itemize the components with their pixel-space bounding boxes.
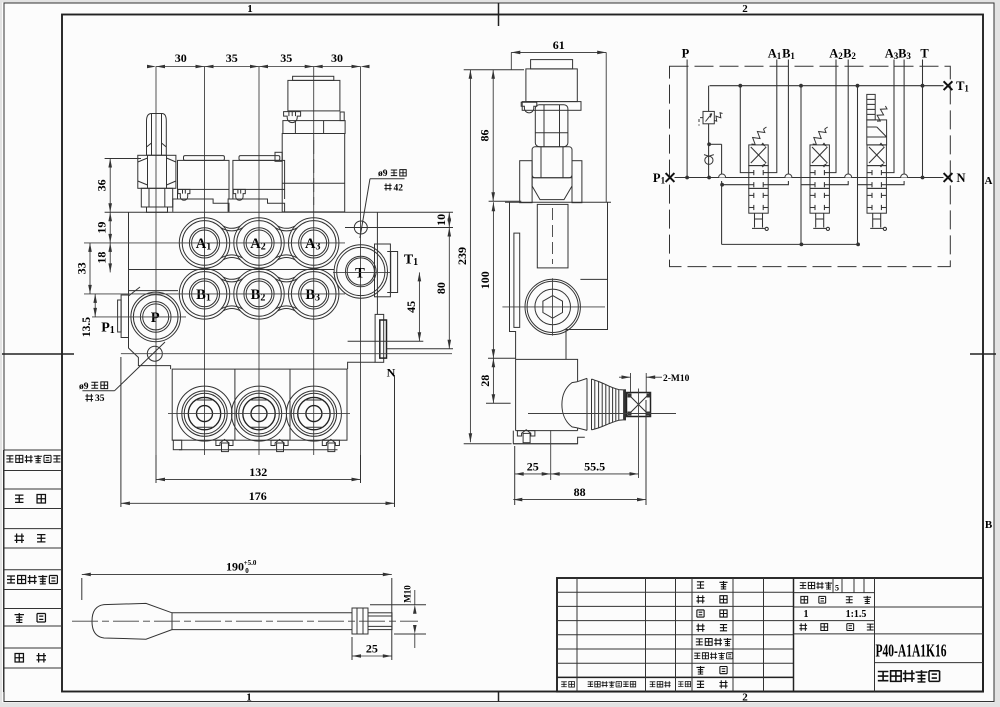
wire bypass to spool1 lower port xyxy=(722,184,749,186)
zone tick top center xyxy=(498,3,500,26)
side view step line right xyxy=(580,278,607,280)
B row centerline xyxy=(84,293,345,295)
pilot kickout left bolt xyxy=(284,112,301,123)
lever centerline xyxy=(72,620,418,622)
zone tick bottom center xyxy=(498,692,500,702)
svg-text:28: 28 xyxy=(478,375,492,387)
left table label jiao-miao xyxy=(15,534,24,543)
lever handle knob xyxy=(92,603,172,639)
pilot kickout left tab xyxy=(275,152,282,161)
title label tu-yang-biao-ji (drawing mark) xyxy=(800,583,806,589)
port B3 boss xyxy=(289,269,339,319)
svg-text:2: 2 xyxy=(742,692,748,704)
svg-text:13.5: 13.5 xyxy=(81,317,93,337)
side view port crosshair xyxy=(502,306,605,308)
spool valve V1 center box port stubs xyxy=(749,172,754,174)
valve body left edge xyxy=(128,212,130,295)
title label jiao-dui (checked) xyxy=(696,624,704,632)
spool section housing xyxy=(172,369,347,440)
port A2 boss xyxy=(234,218,284,268)
spool valve V3 spring xyxy=(877,106,887,121)
dimension 13.5 left xyxy=(94,294,96,317)
T row centerline xyxy=(333,271,390,273)
side view relief hex upper xyxy=(535,105,568,147)
title block right section column xyxy=(874,578,876,692)
title label biao-zhun-hua-jian-cha (standards check) xyxy=(694,653,700,658)
relief valve stem xyxy=(147,207,168,212)
svg-text:25: 25 xyxy=(366,642,378,656)
title label geng-gai-nei-rong (change content) xyxy=(588,682,593,687)
side view stud strip xyxy=(514,233,520,327)
svg-text:10: 10 xyxy=(434,214,448,226)
pilot kickout cap xyxy=(288,80,340,111)
wire V1 B1 connection xyxy=(768,60,788,185)
dimension 80 right xyxy=(387,348,454,350)
svg-text:5: 5 xyxy=(835,584,839,593)
svg-text:35: 35 xyxy=(95,394,105,404)
title block row lines left section xyxy=(557,591,794,593)
svg-text:M10: M10 xyxy=(403,585,413,603)
front view top dimension line 30-35-35-30 xyxy=(156,66,361,68)
svg-text:25: 25 xyxy=(527,459,539,473)
title label ri-qi (date) xyxy=(678,682,683,687)
port cap column 2 body xyxy=(233,160,285,189)
side view port plug hexagon xyxy=(543,296,563,319)
svg-text:N: N xyxy=(956,171,965,185)
dimension 2-M10 xyxy=(630,373,632,393)
title block outer frame xyxy=(557,578,983,692)
leader line to top right hole xyxy=(360,179,370,238)
spool valve V3 crossed arrows xyxy=(869,147,884,163)
joystick coupler cross brace xyxy=(627,393,651,417)
side view right side plate xyxy=(572,161,582,203)
dimension 10 right xyxy=(377,211,453,213)
svg-text:88: 88 xyxy=(574,485,586,499)
crossing hops on P1 bus xyxy=(719,174,726,178)
spool section foot bolt 2 xyxy=(271,439,288,445)
wire T return vertical xyxy=(922,60,924,178)
wire V2 B2 connection xyxy=(829,60,848,185)
title block small cells row xyxy=(832,578,834,593)
zone tick right xyxy=(970,353,996,355)
title name san-lian-duo-lu-fa (triple multi-way valve) xyxy=(878,671,889,680)
svg-text:239: 239 xyxy=(455,247,469,265)
title label gong-yi-jian-cha (process check) xyxy=(696,639,703,645)
svg-text:1: 1 xyxy=(804,609,809,620)
title block column lines left section xyxy=(576,578,578,692)
title label she-ji (design) xyxy=(697,582,704,588)
title label shen-he (review) xyxy=(696,666,704,674)
svg-text:2-M10: 2-M10 xyxy=(663,374,690,384)
side view dimension 25 bottom xyxy=(514,446,516,505)
joystick bellows folds xyxy=(594,380,596,429)
dimension M10 xyxy=(370,604,426,606)
title block right section rows xyxy=(794,592,875,594)
dimension 190 with tolerance xyxy=(81,578,83,600)
wire bypass vertical with hop xyxy=(721,144,723,244)
spool section foot bolt 3 xyxy=(322,439,339,445)
joystick coupler corner nuts xyxy=(628,394,632,398)
side view dimension 86 xyxy=(489,200,522,202)
pilot kickout dashed centerline xyxy=(313,140,315,205)
spool valve V2 crossed arrows xyxy=(812,147,827,163)
wire carryover bottom horizontal xyxy=(722,243,859,245)
side view dimension 100 xyxy=(488,357,516,359)
spool valve V3 actuator legs xyxy=(872,213,874,227)
valve body lower right profile xyxy=(348,362,376,369)
svg-text:B: B xyxy=(985,519,993,531)
spool valve V3 envelope boxes xyxy=(867,145,886,166)
spool valve V2 bottom box port stubs xyxy=(810,194,815,196)
dimension 19 left xyxy=(109,212,111,243)
svg-text:36: 36 xyxy=(95,179,109,191)
wire V2 A2 connection xyxy=(829,60,836,173)
svg-text:42: 42 xyxy=(394,183,404,193)
svg-text:ø9: ø9 xyxy=(378,169,388,179)
inlet side plate xyxy=(121,295,128,338)
relief valve lock nut hex xyxy=(138,155,176,188)
port cap column 1 lip xyxy=(184,156,225,161)
valve body chamfer top-left of P boss xyxy=(129,287,141,296)
title label di-zhang (sheet no) xyxy=(847,624,854,631)
spool valve V3 bottom box port stubs xyxy=(867,194,872,196)
relief valve symbol xyxy=(703,111,714,123)
inlet boss top line xyxy=(129,290,179,292)
leader line to bottom left hole xyxy=(115,342,165,391)
side view upper body left edge xyxy=(510,202,516,359)
side view cap plate xyxy=(522,102,581,111)
svg-text:33: 33 xyxy=(75,262,89,274)
schematic dashed boundary box xyxy=(670,66,951,266)
dimension 25 lever xyxy=(351,637,353,660)
side view relief band xyxy=(532,178,572,200)
svg-text:0: 0 xyxy=(245,567,249,575)
title label geng-gai-ren (changed by) xyxy=(650,682,656,687)
port cap column 2 bolt xyxy=(233,189,245,200)
spool valve V2 return spring xyxy=(813,129,826,145)
dimension 45 right xyxy=(348,340,424,342)
side view dimension 55.5 bottom xyxy=(550,430,552,480)
svg-text:18: 18 xyxy=(95,252,109,264)
wire top bus to T1 xyxy=(710,85,944,87)
svg-text:A: A xyxy=(985,175,993,187)
side view dimension 88 bottom xyxy=(645,400,647,505)
spool section foot bolt 1 xyxy=(216,439,233,445)
svg-text:35: 35 xyxy=(280,51,292,65)
wire relief valve to check valve junction xyxy=(708,124,710,178)
N port boss xyxy=(375,314,384,362)
lever shaft xyxy=(172,612,352,614)
port T boss plate xyxy=(375,244,391,297)
valve body deck line xyxy=(129,211,378,213)
joystick coupler square xyxy=(627,393,651,417)
side view deck line xyxy=(505,201,611,203)
wire V1 A1 connection xyxy=(768,60,777,173)
mounting hole bottom left dia9 xyxy=(147,346,162,361)
front view column centerline spool 2 xyxy=(258,67,260,456)
port B1 boss xyxy=(179,269,229,319)
svg-text:35: 35 xyxy=(226,51,238,65)
svg-text:176: 176 xyxy=(249,489,267,503)
spool section boss 3 xyxy=(286,386,341,441)
left table label qian-zi xyxy=(15,613,24,622)
dimension 36 left xyxy=(105,158,141,160)
relief valve acorn nut xyxy=(147,114,167,156)
svg-text:P: P xyxy=(151,310,160,326)
svg-text:+5.0: +5.0 xyxy=(244,559,257,567)
side view foot bolt xyxy=(517,430,535,436)
svg-text:P40-A1A1K16: P40-A1A1K16 xyxy=(876,641,947,661)
port B2 boss xyxy=(234,269,284,319)
port cap column 1 body xyxy=(178,160,230,189)
spool section boss 2 xyxy=(232,386,287,441)
mounting hole top right dia9 xyxy=(354,221,367,234)
spool valve V2 center box port stubs xyxy=(810,172,815,174)
front view column centerline relief valve xyxy=(155,67,157,480)
left table label miao-tu xyxy=(15,495,23,502)
A row centerline xyxy=(84,242,345,244)
joystick bellows clamp band xyxy=(586,378,588,430)
dimension 176 bottom xyxy=(120,357,122,507)
spool section base plate line xyxy=(179,449,338,451)
spool valve V1 return spring xyxy=(752,129,765,145)
wire V3 B3 connection xyxy=(886,60,904,185)
spool section left foot tab xyxy=(173,440,181,450)
pilot kickout flange plate xyxy=(283,121,345,134)
pilot kickout right tab xyxy=(340,112,344,121)
svg-text:30: 30 xyxy=(175,51,187,65)
body parting line below A row xyxy=(129,269,335,271)
spool valve V1 bottom box port stubs xyxy=(749,194,754,196)
title label pi-zhun (approved) xyxy=(697,681,704,687)
port cap column 1 base tier xyxy=(173,199,229,212)
junction dots on buses xyxy=(685,176,689,180)
spool valve V3 kickout narrow box xyxy=(867,94,875,120)
outlet T plug xyxy=(391,252,398,293)
wire P supply vertical xyxy=(686,60,688,178)
valve body right edge xyxy=(376,212,378,314)
joystick coupler inner line xyxy=(632,413,647,415)
side view relief hex lower xyxy=(532,147,572,178)
side view lower body xyxy=(516,359,578,430)
joystick axis centerline xyxy=(528,413,676,415)
side view center port circles xyxy=(525,279,580,334)
wire V1 left wrap from top bus xyxy=(740,86,749,173)
dimension 33 left xyxy=(89,243,91,294)
svg-text:19: 19 xyxy=(95,222,109,234)
svg-text:132: 132 xyxy=(249,465,267,479)
port cap column 1 bolt xyxy=(178,189,190,200)
svg-text:100: 100 xyxy=(478,271,492,289)
left table label jie-tong-yong-jian-deng-ji xyxy=(6,456,13,462)
valve body lower left profile xyxy=(129,338,171,370)
side view dimension 28 xyxy=(486,402,511,404)
svg-text:190: 190 xyxy=(226,560,244,574)
svg-text:1:1.5: 1:1.5 xyxy=(846,609,867,620)
wire relief valve to top bus xyxy=(708,86,710,112)
svg-text:45: 45 xyxy=(404,301,418,313)
joystick coupler centerline vertical xyxy=(638,389,640,479)
spool valve V2 actuator legs xyxy=(815,213,817,227)
port cap column 2 base tier xyxy=(228,199,285,212)
spool section boss 1 xyxy=(177,386,232,441)
dimension 18 left xyxy=(109,243,111,273)
side view dimension 61 top xyxy=(510,52,512,70)
svg-text:61: 61 xyxy=(553,38,565,52)
title label zhi-tu (drawn) xyxy=(696,595,704,603)
svg-text:T: T xyxy=(355,265,365,281)
spool section centerline xyxy=(168,413,350,415)
pilot kickout cap lip xyxy=(293,76,334,80)
left table label ri-qi xyxy=(15,654,23,662)
plugged port symbol N xyxy=(944,173,953,182)
wire V3 A3 connection xyxy=(886,60,894,173)
svg-text:1: 1 xyxy=(247,3,253,15)
spool valve V3 detent box xyxy=(867,120,887,145)
spool valve V1 lever xyxy=(752,227,765,229)
front view column centerline spool 1 xyxy=(204,67,206,456)
spool valve V1 actuator legs xyxy=(754,213,756,227)
spool valve V2 envelope boxes xyxy=(810,145,829,166)
port A3 boss xyxy=(289,218,339,268)
side view foot plate xyxy=(513,431,585,444)
svg-text:2: 2 xyxy=(742,3,748,15)
lobe bridges B row xyxy=(223,277,240,279)
svg-text:T: T xyxy=(920,47,929,61)
wire P1 bus horizontal xyxy=(675,177,944,179)
lever threaded end xyxy=(368,613,392,630)
wire bypass branch horizontal xyxy=(709,143,722,145)
side view dimension 239 xyxy=(464,69,524,71)
title label miao-tu (traced) xyxy=(697,610,704,617)
title label gong-zhang (sheets) xyxy=(799,623,807,631)
port cap column 2 lip xyxy=(239,156,280,161)
spool valve V1 crossed arrows xyxy=(751,147,766,163)
side view relief bore slot xyxy=(537,204,568,268)
front view column centerline spool 3 xyxy=(313,67,315,456)
side view upper body right edge xyxy=(566,202,608,359)
side view pilot cap xyxy=(526,69,577,102)
svg-text:1: 1 xyxy=(246,692,252,704)
dimension 132 bottom xyxy=(155,455,157,483)
plugged port symbol T1 xyxy=(944,81,953,90)
P row centerline xyxy=(92,316,186,318)
port P boss xyxy=(131,292,181,342)
lobe bridges A row xyxy=(223,226,240,228)
title label biao-ji (mark) xyxy=(561,682,567,687)
side view cap bolt xyxy=(521,102,537,113)
relief valve adapter body xyxy=(141,188,172,207)
joystick dome housing xyxy=(562,382,577,428)
plugged port symbol P1 xyxy=(666,173,675,182)
side view cap top block xyxy=(531,60,573,69)
mounting holes centerline xyxy=(121,353,452,355)
svg-text:30: 30 xyxy=(331,51,343,65)
spool valve V3 center box port stubs xyxy=(867,172,872,174)
front view column centerline outlet T xyxy=(360,67,362,480)
svg-text:80: 80 xyxy=(434,282,448,294)
left table label jiu-di-tu-zong-hao xyxy=(7,576,15,583)
lever nut xyxy=(352,608,368,634)
wire V3 left wrap from top bus xyxy=(858,86,868,245)
spool valve V2 lever xyxy=(813,227,826,229)
pilot kickout main body xyxy=(282,134,345,212)
wire V2 left wrap from top bus xyxy=(801,86,810,245)
left margin table grid xyxy=(4,449,63,451)
svg-text:P: P xyxy=(682,47,690,61)
spool valve V3 lever xyxy=(870,227,883,229)
zone tick left xyxy=(2,353,74,355)
port A1 boss xyxy=(179,218,229,268)
side view left side plate xyxy=(520,161,532,203)
port T boss xyxy=(334,245,387,298)
svg-text:55.5: 55.5 xyxy=(584,459,605,473)
title label bi-li (scale) xyxy=(846,597,853,603)
spool valve V1 envelope boxes xyxy=(749,145,768,166)
check valve symbol xyxy=(705,156,713,164)
svg-text:86: 86 xyxy=(478,130,492,142)
joystick boot end ring xyxy=(623,389,626,420)
title label shu-liang (quantity) xyxy=(801,596,808,603)
